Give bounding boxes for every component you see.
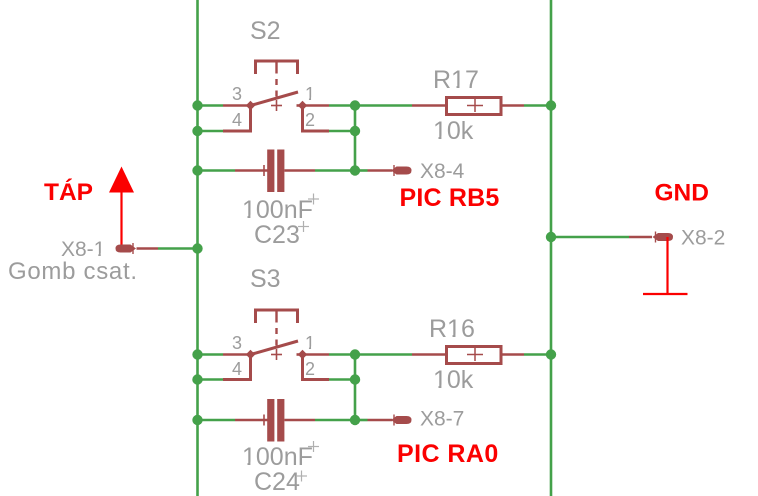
wire cap row to X8-4	[355, 169, 368, 172]
wire cap row bottom right	[315, 419, 355, 422]
svg-text:X8-4: X8-4	[420, 160, 465, 183]
junction (197.5,354.5)	[192, 349, 202, 359]
wire R16 to right vertical	[524, 353, 551, 356]
wire X8-1 row	[158, 247, 198, 250]
svg-text:3: 3	[232, 84, 242, 104]
wire cap row to X8-7	[355, 419, 368, 422]
svg-text:S2: S2	[250, 17, 281, 45]
resistor R17	[412, 98, 524, 115]
junction (355,379.5)	[350, 374, 360, 384]
capacitor C23	[235, 150, 315, 193]
wire row1 top to R17	[355, 104, 412, 107]
wire R17 to right vertical	[524, 104, 551, 107]
svg-text:X8-2: X8-2	[681, 227, 725, 250]
wire net middle vertical top	[354, 106, 357, 171]
svg-text:Gomb csat.: Gomb csat.	[8, 258, 138, 285]
junction (355,170.5)	[350, 165, 360, 175]
svg-text:C24: C24	[254, 468, 300, 496]
svg-text:TÁP: TÁP	[44, 178, 93, 206]
junction (197.5,105.5)	[192, 100, 202, 110]
svg-text:4: 4	[232, 359, 242, 379]
junction (197.5,170.5)	[192, 165, 202, 175]
junction (197.5,420)	[192, 415, 202, 425]
wire GND row	[551, 236, 629, 239]
wire row2 bottom left	[198, 378, 224, 381]
wire cap row top left	[198, 169, 236, 172]
svg-text:1: 1	[305, 333, 315, 353]
svg-text:R17: R17	[433, 66, 479, 94]
wire row1 bottom left	[198, 353, 224, 356]
switch S3	[223, 310, 329, 380]
connector pin X8-4	[368, 165, 412, 176]
wire row1 bottom right of switch	[329, 353, 355, 356]
white masks to remove Liberation "1" foot serifs	[94, 85, 465, 466]
svg-text:4: 4	[232, 110, 242, 130]
svg-text:2: 2	[305, 110, 315, 130]
wire row1 top right of switch	[329, 104, 355, 107]
supply GND symbol	[643, 237, 688, 294]
svg-text:2: 2	[305, 359, 315, 379]
connector pin X8-7	[368, 415, 412, 426]
svg-text:R16: R16	[429, 315, 475, 343]
svg-text:100nF: 100nF	[242, 443, 313, 471]
junction (197.5,248.5)	[192, 243, 202, 253]
svg-text:10k: 10k	[433, 117, 474, 145]
svg-text:10k: 10k	[433, 366, 474, 394]
wire row2 top left	[198, 130, 224, 133]
junction (551,237)	[546, 232, 556, 242]
svg-text:1: 1	[305, 84, 315, 104]
junction (197.5,379.5)	[192, 374, 202, 384]
wire net left vertical	[196, 0, 199, 496]
svg-text:S3: S3	[250, 265, 281, 293]
resistor R16	[412, 347, 524, 364]
wire row2 top right	[329, 130, 355, 133]
junction (197.5,131)	[192, 126, 202, 136]
svg-text:100nF: 100nF	[242, 196, 313, 224]
origin cross (100nF C24)	[308, 441, 319, 452]
capacitor C24	[235, 399, 315, 442]
junction (355,354.5)	[350, 349, 360, 359]
junction (355,105.5)	[350, 100, 360, 110]
connector pin X8-2	[629, 232, 673, 243]
switch S2	[223, 61, 329, 131]
wire cap row bottom left	[198, 419, 236, 422]
supply TAP	[109, 167, 134, 250]
wire row2 bottom right	[329, 378, 355, 381]
connector pin X8-1	[116, 243, 159, 254]
svg-text:X8-7: X8-7	[420, 408, 464, 431]
junction (551,354.5)	[546, 349, 556, 359]
wire net right vertical	[550, 0, 553, 496]
svg-text:C23: C23	[254, 221, 300, 249]
origin cross (100nF C23)	[308, 194, 319, 205]
wire row1 top left	[198, 104, 224, 107]
wire net middle vertical bottom	[354, 355, 357, 421]
wire row1 bottom to R16	[355, 353, 412, 356]
svg-text:3: 3	[232, 333, 242, 353]
wire cap row top right	[315, 169, 355, 172]
junction (551,105.5)	[546, 100, 556, 110]
origin cross (C23)	[298, 221, 309, 232]
junction (355,131)	[350, 126, 360, 136]
svg-text:PIC RB5: PIC RB5	[400, 184, 500, 212]
origin cross (C24)	[296, 471, 307, 482]
svg-text:GND: GND	[655, 180, 709, 207]
junction (355,420)	[350, 415, 360, 425]
svg-text:PIC RA0: PIC RA0	[397, 440, 499, 468]
